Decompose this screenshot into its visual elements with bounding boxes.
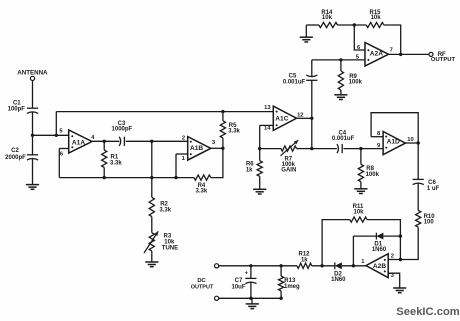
svg-text:0.001uF: 0.001uF [332,136,355,142]
wire pin6 drop [354,25,365,50]
svg-text:13: 13 [264,105,271,111]
wire A1D pin8 [371,136,383,138]
wire pin6 drop to bottom rail [58,149,60,178]
svg-text:12: 12 [297,112,303,118]
svg-text:6: 6 [60,151,64,157]
junction D1 line at right leg [399,234,402,237]
wire R13 bottom stub [280,291,282,298]
wire R11 right leg [367,220,400,260]
svg-text:SeekIC.com: SeekIC.com [396,306,459,318]
svg-text:OUTPUT: OUTPUT [431,57,456,63]
svg-text:1000pF: 1000pF [112,126,133,132]
svg-text:5: 5 [59,129,63,135]
op-amp A2B [361,254,394,280]
svg-text:R2: R2 [160,201,168,207]
svg-text:3.3k: 3.3k [159,208,171,214]
svg-text:10uF: 10uF [231,284,245,290]
svg-text:7: 7 [390,48,393,54]
resistor R15 10k [366,10,384,28]
svg-text:3.3k: 3.3k [228,129,240,135]
junction A1B output node [221,147,224,150]
wire antenna to C1 [32,81,34,109]
junction rail at R5 [221,110,224,113]
capacitor C3 1000pF [112,121,133,146]
svg-text:DC: DC [197,278,206,284]
capacitor C2 2000pF [5,148,38,161]
svg-text:2: 2 [391,254,394,260]
svg-text:14: 14 [264,125,271,131]
ground dc branch [246,304,259,309]
svg-text:C2: C2 [11,148,19,154]
wire dc line top [219,265,297,267]
resistor R10 100 [416,210,436,227]
wire R14 to R15 [338,24,367,26]
svg-text:10k: 10k [164,239,175,245]
ground R14 branch [300,37,313,42]
wire C4 right to A1D pin9 [344,148,384,150]
wire A1A output line [92,140,119,142]
wire dc line bottom [219,297,281,299]
capacitor C4 0.001uF [332,130,355,153]
wire C2 to ground [32,159,34,185]
junction R13 top [279,264,282,267]
wire A1C pin14 [260,124,274,126]
wire A1B output [211,147,223,149]
wire output node to C6 [417,143,419,179]
wire R5 top stub [222,112,224,121]
wire R8 to ground [360,182,362,189]
svg-text:1meg: 1meg [284,284,300,290]
wire dc ground stub [251,298,253,304]
svg-text:C1: C1 [13,100,21,106]
wire A1D output [405,142,418,144]
ground A2B pin3 [393,288,406,293]
ground R6 branch [253,189,266,194]
svg-text:A1B: A1B [190,145,203,152]
wire pin1 drop to rail [175,154,177,178]
wire R15 to output [384,25,401,54]
wire R14 left [306,24,319,26]
wire R10 to detector line [400,227,418,259]
resistor R1 3.3k [102,150,123,167]
svg-text:1k: 1k [246,167,253,173]
wire pin14 drop [259,125,261,148]
junction R13 bottom [279,297,282,300]
wire R1 bottom stub [103,167,105,177]
wire D1 drop to pin1 line [352,236,354,266]
resistor R14 10k [319,10,338,28]
wire C1 to C2 through node [32,112,34,154]
watermark SeekIC.com [396,306,459,318]
svg-text:0.001uF: 0.001uF [283,79,306,85]
wire R1 top stub [103,141,105,150]
wire C4 left [312,148,337,150]
resistor R5 3.3k [220,121,240,138]
wire D2 to A2B pin1 [342,265,366,267]
svg-text:C7: C7 [235,278,243,284]
junction A1C output at C5 line [310,117,313,120]
op-amp A1C [264,105,304,132]
svg-text:A1A: A1A [72,139,85,146]
svg-text:10: 10 [407,137,413,143]
svg-text:1k: 1k [301,257,308,263]
capacitor C1 100pF [8,100,38,113]
wire A2B pin3 to ground [388,273,400,288]
svg-text:A2A: A2A [370,50,383,57]
junction C5 line at C4 line [310,147,313,150]
wire C5 link upper [311,60,313,77]
svg-text:4: 4 [91,135,95,141]
resistor R12 1k [297,252,312,269]
node DC OUTPUT terminal bottom [215,296,219,300]
capacitor C7 10uF [231,271,256,291]
wire A1D feedback loop [371,113,418,143]
svg-text:3.3k: 3.3k [196,188,208,194]
svg-text:10k: 10k [322,15,333,21]
op-amp A1D [377,131,414,155]
junction antenna node [31,134,34,137]
resistor R8 100k [358,164,379,181]
wire D1 left [353,235,376,237]
wire C3 to A1B pin2 [126,140,188,142]
wire R9 to ground [340,90,342,95]
junction A2A output node [399,53,402,56]
junction pin1 at rail [174,176,177,179]
svg-text:OUTPUT: OUTPUT [191,284,214,290]
wire R11 left leg [322,220,350,266]
resistor R6 1k [246,161,262,177]
junction A1D output node [417,141,420,144]
svg-text:100k: 100k [349,79,363,85]
wire R13 top stub [280,266,282,276]
potentiometer R3 10k TUNE [144,231,178,253]
junction pin2 node [399,258,402,261]
wire top feedback rail [56,111,273,113]
wire tune column upper [151,141,153,197]
junction R11 leg at dc line [320,264,323,267]
wire A1C output [297,117,312,119]
svg-text:A1C: A1C [275,115,288,122]
ground antenna branch [26,185,39,190]
wire R6 to ground [259,176,261,189]
junction R8 top [359,147,362,150]
svg-text:100k: 100k [366,172,380,178]
diode D2 1N60 [331,262,346,283]
capacitor C6 1uF [413,179,440,191]
resistor R13 1meg [279,276,301,291]
svg-text:A2B: A2B [373,263,386,270]
wire C7 bottom stub [250,283,252,299]
wire R12 to D2 [312,265,335,267]
svg-text:TUNE: TUNE [162,246,178,252]
wire A2A pin5 line [312,59,365,61]
wire A1B pin1 [176,153,188,155]
svg-text:3.3k: 3.3k [110,160,122,166]
junction R1 top [103,140,106,143]
op-amp A2A [356,43,393,67]
svg-text:3: 3 [212,140,216,146]
svg-text:GAIN: GAIN [281,167,296,173]
diode D1 1N60 [372,233,387,253]
wire gain node to R6 [259,149,261,161]
op-amp A1A [59,129,95,158]
svg-text:R13: R13 [284,278,296,284]
wire A2B pin2 [388,259,400,261]
wire C5 link lower [311,80,313,148]
ground R9 branch [334,95,347,100]
svg-text:1: 1 [182,156,186,162]
wire C7 top stub [250,266,252,279]
svg-text:3: 3 [391,273,395,279]
wire R4 to output node [211,148,223,177]
wire A2A output [389,53,430,55]
capacitor C5 0.001uF [283,74,318,86]
potentiometer R7 100k GAIN [281,140,299,173]
svg-text:1N60: 1N60 [372,247,387,253]
wire R2 to R3 [151,217,153,233]
junction tune column at rail [150,176,153,179]
junction tune column top [150,140,153,143]
junction rail/pin5 [55,134,58,137]
svg-text:100pF: 100pF [8,107,26,113]
svg-text:10k: 10k [353,210,364,216]
wire R3 to ground [151,251,153,262]
wire R5 bottom stub [222,138,224,148]
svg-text:+: + [245,271,249,277]
junction D1 at pin1 line [352,264,355,267]
ground R8 branch [354,189,367,194]
ground tune branch [145,262,158,267]
op-amp A1B [182,135,216,162]
node DC OUTPUT terminal top [191,264,219,291]
junction C7 bottom [249,297,252,300]
wire node to A1A pin5 [33,134,69,136]
svg-text:ANTENNA: ANTENNA [17,69,48,76]
svg-text:2000pF: 2000pF [5,155,26,161]
svg-text:1: 1 [361,259,365,265]
resistor R2 3.3k [149,197,172,216]
wire bottom rail [59,177,194,179]
wire D1 right [383,235,400,237]
junction gain node [258,147,261,150]
svg-text:100: 100 [424,220,435,226]
wire R7 to C5 line [297,148,312,150]
wire A1A pin6 [59,148,68,150]
svg-text:A1D: A1D [387,138,400,145]
svg-text:1N60: 1N60 [331,277,346,283]
resistor R4 3.3k [194,175,211,194]
junction feedback tap [353,23,356,26]
svg-text:R3: R3 [164,233,172,239]
wire C6 to R10 [417,184,419,211]
wire gain node to R7 [260,148,281,150]
junction R1 bottom [103,176,106,179]
node RF OUTPUT terminal [429,52,456,63]
svg-text:2: 2 [182,135,185,141]
wire R9 top stub [340,60,342,71]
svg-text:1 uF: 1 uF [427,186,440,192]
node ANTENNA input terminal [17,69,48,80]
wire R14 ground stub [305,25,307,37]
resistor R9 100k [338,71,362,90]
svg-text:10k: 10k [371,15,382,21]
wire rail drop to pin5 [55,112,57,136]
junction R9 top [339,58,342,61]
resistor R11 10k [350,204,367,222]
junction C7 top [249,264,252,267]
wire R8 top stub [360,149,362,165]
